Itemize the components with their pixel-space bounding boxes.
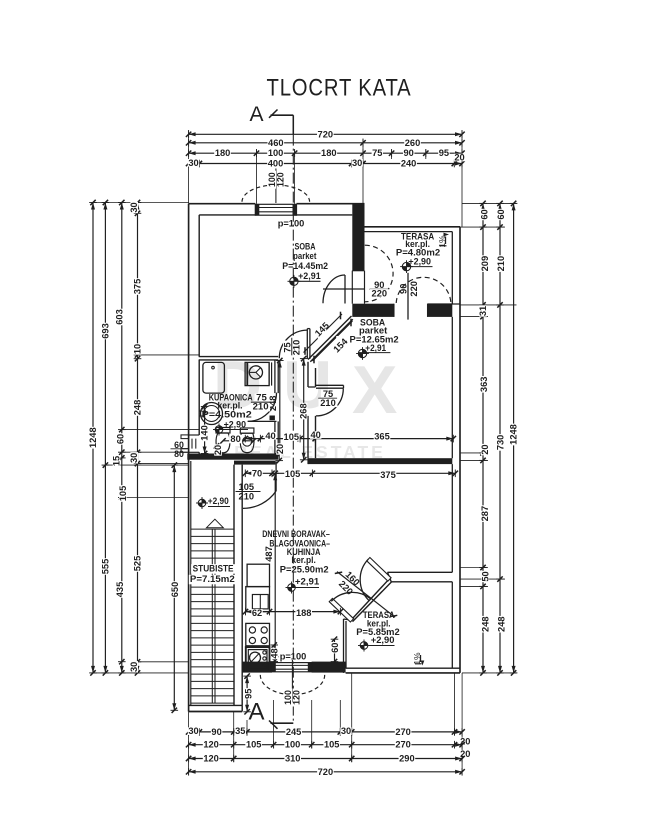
dim chain top row3 bbox=[186, 148, 465, 158]
wall top exterior inner bbox=[199, 214, 352, 216]
stairs center divider bbox=[212, 529, 215, 703]
svg-text:TLOCRT KATA: TLOCRT KATA bbox=[267, 75, 412, 102]
svg-text:60: 60 bbox=[330, 643, 340, 653]
door O2 dashed swing in terasa bbox=[396, 277, 451, 303]
svg-text:20: 20 bbox=[480, 444, 490, 454]
svg-text:+2,90: +2,90 bbox=[208, 496, 229, 506]
svg-text:720: 720 bbox=[318, 767, 334, 777]
svg-text:60: 60 bbox=[116, 434, 126, 444]
svg-text:+2,91: +2,91 bbox=[298, 271, 321, 281]
level symbol terasa1 bbox=[400, 260, 413, 273]
diagonal door axis/dim line 160-220 bbox=[335, 572, 398, 618]
extension lines top bbox=[189, 130, 462, 227]
svg-text:220: 220 bbox=[409, 281, 419, 297]
dim chain top row2 460-260 bbox=[186, 138, 465, 148]
svg-text:120: 120 bbox=[203, 754, 219, 764]
svg-text:1248: 1248 bbox=[509, 424, 519, 445]
left wall window 60/80 bbox=[181, 435, 199, 452]
dnevni top-left wall piece (filled) bbox=[234, 461, 275, 465]
svg-text:105: 105 bbox=[284, 432, 300, 442]
svg-text:400: 400 bbox=[268, 159, 284, 169]
svg-text:693: 693 bbox=[100, 323, 110, 339]
svg-text:363: 363 bbox=[479, 377, 489, 393]
svg-text:40: 40 bbox=[311, 430, 321, 440]
washing machine bbox=[245, 362, 269, 385]
svg-text:90: 90 bbox=[211, 727, 221, 737]
terasa top wall bbox=[363, 227, 460, 232]
window bottom (p=100) frame bbox=[272, 663, 312, 672]
section line A-A (dash-dot) bbox=[292, 135, 294, 723]
svg-text:20: 20 bbox=[454, 153, 464, 163]
svg-text:62: 62 bbox=[252, 608, 262, 618]
level symbol dnevni bbox=[286, 582, 298, 594]
svg-text:525: 525 bbox=[133, 556, 143, 572]
wall right exterior outer bbox=[459, 227, 461, 673]
door O1 soba1-terasa 90/220 bbox=[323, 271, 365, 304]
soba2 left wall upper (corridor right) bbox=[308, 362, 316, 387]
svg-text:375: 375 bbox=[133, 279, 143, 295]
svg-text:287: 287 bbox=[480, 506, 490, 522]
soba2 left wall lower bbox=[308, 416, 316, 458]
window top (p=100) frame bbox=[255, 204, 296, 215]
corridor top door 75/210 (to soba1) bbox=[279, 329, 310, 359]
svg-text:245: 245 bbox=[286, 727, 302, 737]
svg-text:30: 30 bbox=[129, 202, 139, 212]
svg-text:15: 15 bbox=[112, 456, 122, 466]
extension lines left bbox=[93, 203, 199, 673]
level symbol soba2 bbox=[356, 347, 369, 360]
svg-text:31: 31 bbox=[478, 306, 488, 316]
dim interior 248 bbox=[268, 358, 284, 457]
svg-text:210: 210 bbox=[292, 340, 302, 356]
svg-text:+2,90: +2,90 bbox=[371, 635, 395, 645]
label 90/220 door O1 bbox=[370, 280, 390, 298]
level symbol soba1 bbox=[288, 275, 301, 288]
dim chain right3 bbox=[509, 201, 519, 676]
toilet WC1 bbox=[216, 428, 230, 453]
svg-text:140: 140 bbox=[200, 425, 210, 441]
diagonal door leaf 1 swing arc bbox=[360, 559, 369, 601]
svg-text:210: 210 bbox=[496, 256, 506, 272]
svg-text:20: 20 bbox=[213, 445, 223, 455]
label soba2 bbox=[350, 317, 399, 353]
label terasa1 bbox=[396, 231, 440, 266]
dnevni bottom wall left (filled) bbox=[242, 662, 272, 673]
extension lines bottom bbox=[189, 673, 463, 775]
door O5 105/210 by stairs leaf+arc bbox=[243, 461, 276, 508]
svg-text:60: 60 bbox=[496, 209, 506, 219]
window bottom swing dashed bbox=[260, 660, 324, 702]
level symbol stubiste bbox=[196, 497, 208, 509]
terasa2 bottom wall bbox=[346, 668, 460, 673]
label dnevni boravak bbox=[262, 529, 330, 587]
svg-text:210: 210 bbox=[253, 402, 269, 413]
dim interior 650 bbox=[170, 462, 180, 713]
dim chain bottom row2 bbox=[186, 740, 471, 759]
diagonal door leaf 2 swing arc bbox=[331, 592, 370, 601]
dnevni bottom wall right (filled) bbox=[312, 662, 346, 673]
svg-text:210: 210 bbox=[320, 398, 336, 408]
svg-text:365: 365 bbox=[374, 431, 390, 441]
svg-text:95: 95 bbox=[439, 148, 449, 158]
svg-text:180: 180 bbox=[321, 148, 337, 158]
svg-text:120: 120 bbox=[292, 690, 302, 705]
kitchen sink unit bbox=[246, 647, 270, 671]
dim chain right2 bbox=[495, 201, 506, 676]
dim chain left2 bbox=[100, 200, 110, 676]
dim chain bottom row4 bbox=[186, 767, 465, 777]
dim chain left1 1248 bbox=[88, 200, 98, 676]
svg-text:30: 30 bbox=[341, 726, 351, 736]
wall right exterior inner bbox=[451, 232, 453, 669]
svg-text:+2,90: +2,90 bbox=[408, 256, 431, 266]
extension lines right bbox=[460, 203, 517, 673]
window bottom axis dim 100/120 bbox=[283, 689, 302, 707]
diagonal wall corridor/soba2 bbox=[308, 316, 353, 362]
svg-text:270: 270 bbox=[395, 727, 411, 737]
wall left exterior outer bbox=[188, 204, 190, 712]
section mark A top bbox=[249, 103, 293, 135]
kitchen fridge bbox=[247, 564, 269, 586]
stairwell right wall bbox=[234, 465, 242, 706]
svg-text:209: 209 bbox=[480, 256, 490, 272]
diagonal dim 145 bbox=[304, 312, 343, 355]
svg-text:375: 375 bbox=[380, 470, 396, 480]
svg-text:80: 80 bbox=[230, 434, 240, 444]
svg-text:188: 188 bbox=[296, 608, 312, 618]
bathroom right wall lower bbox=[270, 416, 279, 454]
dim interior 487 bbox=[264, 471, 279, 660]
svg-text:+2,91: +2,91 bbox=[295, 577, 319, 587]
svg-text:10: 10 bbox=[133, 344, 143, 354]
svg-text:90: 90 bbox=[404, 148, 414, 158]
svg-text:248: 248 bbox=[480, 616, 490, 632]
svg-text:30: 30 bbox=[352, 158, 362, 168]
svg-text:75: 75 bbox=[372, 148, 382, 158]
diagonal door leaf 1 (rect) bbox=[367, 558, 391, 582]
svg-text:+2,90: +2,90 bbox=[224, 420, 246, 430]
window top axis dim 100/120 bbox=[267, 171, 286, 189]
svg-text:435: 435 bbox=[115, 582, 125, 598]
svg-text:70: 70 bbox=[252, 468, 262, 478]
svg-text:248: 248 bbox=[496, 616, 506, 632]
wall left exterior inner bbox=[191, 215, 199, 706]
door O1 dashed swing in terasa bbox=[365, 245, 393, 302]
svg-text:STUBISTE: STUBISTE bbox=[193, 564, 234, 575]
label 105/210 door O5 bbox=[236, 482, 261, 501]
svg-text:210: 210 bbox=[239, 491, 255, 501]
svg-text:270: 270 bbox=[395, 740, 411, 750]
svg-text:A: A bbox=[249, 103, 263, 126]
wall top exterior outer bbox=[189, 203, 365, 205]
bathroom right wall upper bbox=[275, 360, 278, 393]
stairs treads bbox=[191, 529, 234, 703]
label terasa2 bbox=[356, 610, 399, 645]
dim interior 20 step bbox=[275, 443, 285, 463]
svg-text:80: 80 bbox=[174, 449, 184, 459]
soba2 bottom wall (filled) bbox=[308, 458, 452, 464]
soba1 bottom wall / bathroom top wall bbox=[199, 357, 279, 360]
svg-text:260: 260 bbox=[405, 138, 421, 148]
dim chain left3 bbox=[112, 200, 128, 676]
svg-text:+2,91: +2,91 bbox=[365, 343, 386, 353]
svg-text:290: 290 bbox=[399, 754, 415, 764]
svg-text:105: 105 bbox=[285, 469, 301, 479]
terasa2 left wall bbox=[344, 619, 347, 673]
wall soba1-terasa column (filled) bbox=[352, 204, 364, 271]
dim interior row 62-188 bbox=[243, 608, 343, 618]
svg-text:120: 120 bbox=[276, 172, 286, 187]
svg-text:603: 603 bbox=[115, 309, 125, 325]
svg-text:248: 248 bbox=[133, 400, 143, 416]
door O2 terasa-soba2 90/220 leaf bbox=[394, 273, 428, 320]
svg-text:30: 30 bbox=[188, 726, 198, 736]
label kupaonica bbox=[202, 392, 253, 429]
svg-text:X: X bbox=[352, 352, 397, 428]
label soba1 bbox=[282, 241, 328, 281]
svg-text:20: 20 bbox=[275, 444, 285, 454]
dim chain top row1 720 bbox=[186, 129, 465, 139]
svg-text:105: 105 bbox=[324, 740, 340, 750]
dim chain bottom row3 bbox=[186, 754, 465, 764]
bathroom sink round bbox=[199, 403, 222, 425]
dim chain bottom row1 bbox=[186, 726, 471, 746]
label 160/220 diagonal rotated bbox=[337, 569, 362, 596]
svg-text:parket: parket bbox=[293, 251, 317, 262]
toilet WC2 bbox=[240, 428, 254, 453]
label 75/210 corridor top rotated bbox=[282, 338, 301, 357]
dim interior row 40-105-40-365 bbox=[243, 430, 456, 442]
svg-text:90: 90 bbox=[399, 284, 409, 294]
svg-text:220: 220 bbox=[372, 288, 388, 298]
stairwell bottom wall bbox=[189, 705, 243, 711]
svg-text:180: 180 bbox=[215, 148, 231, 158]
dim chain left4 bbox=[129, 200, 142, 676]
kitchen counter bbox=[246, 587, 270, 612]
label 75/210 soba2 door bbox=[318, 389, 337, 408]
dim chain right1 bbox=[478, 201, 490, 676]
svg-text:48: 48 bbox=[270, 648, 280, 658]
dim interior row 70-105-375 bbox=[243, 468, 458, 480]
label +2,90 stubiste bbox=[208, 496, 230, 507]
dim interior 95 bbox=[243, 673, 253, 714]
dim interior 20 left bbox=[213, 443, 223, 456]
level symbol terasa2 bbox=[358, 640, 370, 652]
bathroom door 75/210 arc bbox=[248, 393, 277, 422]
svg-text:120: 120 bbox=[203, 740, 219, 750]
label stubiste bbox=[189, 564, 236, 586]
svg-text:50: 50 bbox=[480, 571, 490, 581]
svg-text:p=100: p=100 bbox=[280, 651, 307, 661]
svg-text:1248: 1248 bbox=[88, 427, 98, 448]
window top swing dashed bbox=[242, 169, 310, 204]
terasa 1% slope symbol bbox=[437, 233, 449, 248]
dim interior 80 wc bbox=[220, 434, 256, 444]
svg-text:35: 35 bbox=[235, 726, 245, 736]
terasa2 top wall bbox=[388, 572, 453, 582]
label 75/210 bathroom door bbox=[251, 392, 271, 412]
svg-text:95: 95 bbox=[243, 689, 253, 699]
labels 60 80 left window bbox=[171, 440, 188, 459]
svg-text:100: 100 bbox=[285, 740, 301, 750]
dim interior 60 bbox=[330, 637, 340, 665]
svg-text:30: 30 bbox=[129, 662, 139, 672]
svg-text:720: 720 bbox=[318, 129, 334, 139]
svg-text:460: 460 bbox=[268, 138, 284, 148]
svg-text:310: 310 bbox=[285, 754, 301, 764]
svg-text:40: 40 bbox=[265, 431, 275, 441]
bathroom niche lines bbox=[269, 362, 272, 385]
watermark DUX bbox=[213, 347, 397, 462]
bathtub bbox=[203, 362, 225, 393]
svg-text:105: 105 bbox=[246, 740, 262, 750]
svg-text:p=100: p=100 bbox=[278, 218, 305, 228]
svg-text:268: 268 bbox=[299, 403, 309, 419]
svg-text:650: 650 bbox=[170, 582, 180, 598]
svg-text:240: 240 bbox=[401, 159, 417, 169]
dim chain top row4 bbox=[186, 153, 465, 169]
svg-text:P=25.90m2: P=25.90m2 bbox=[280, 565, 329, 576]
dim interior 48 bbox=[270, 642, 280, 664]
section mark A bottom bbox=[248, 699, 293, 729]
dim interior 140 bbox=[200, 404, 210, 456]
label 90/220 door O2 rotated bbox=[399, 281, 419, 297]
svg-text:555: 555 bbox=[100, 559, 110, 575]
svg-text:30: 30 bbox=[129, 453, 139, 463]
bathroom bottom wall (filled) bbox=[187, 454, 278, 460]
diagonal dim 154 bbox=[313, 319, 353, 364]
kitchen hob 4 burners bbox=[246, 623, 270, 645]
dim interior 268 bbox=[299, 356, 309, 463]
stairs up arrow bbox=[207, 519, 224, 528]
svg-text:105: 105 bbox=[118, 486, 128, 502]
svg-text:60: 60 bbox=[480, 209, 490, 219]
svg-text:P=7.15m2: P=7.15m2 bbox=[190, 574, 235, 585]
svg-text:100: 100 bbox=[268, 148, 284, 158]
thick wall band terasa/soba2 (filled) bbox=[352, 304, 460, 317]
diagonal wall dnevni/terasa2 bbox=[344, 580, 392, 622]
svg-text:30: 30 bbox=[188, 158, 198, 168]
level symbol kupaonica bbox=[213, 424, 225, 436]
diagonal door leaf 2 (rect) bbox=[329, 598, 353, 622]
terasa2 1% slope symbol bbox=[412, 652, 424, 666]
svg-text:730: 730 bbox=[495, 435, 505, 451]
soba2 door 75/210 leaf+arc bbox=[316, 385, 344, 416]
